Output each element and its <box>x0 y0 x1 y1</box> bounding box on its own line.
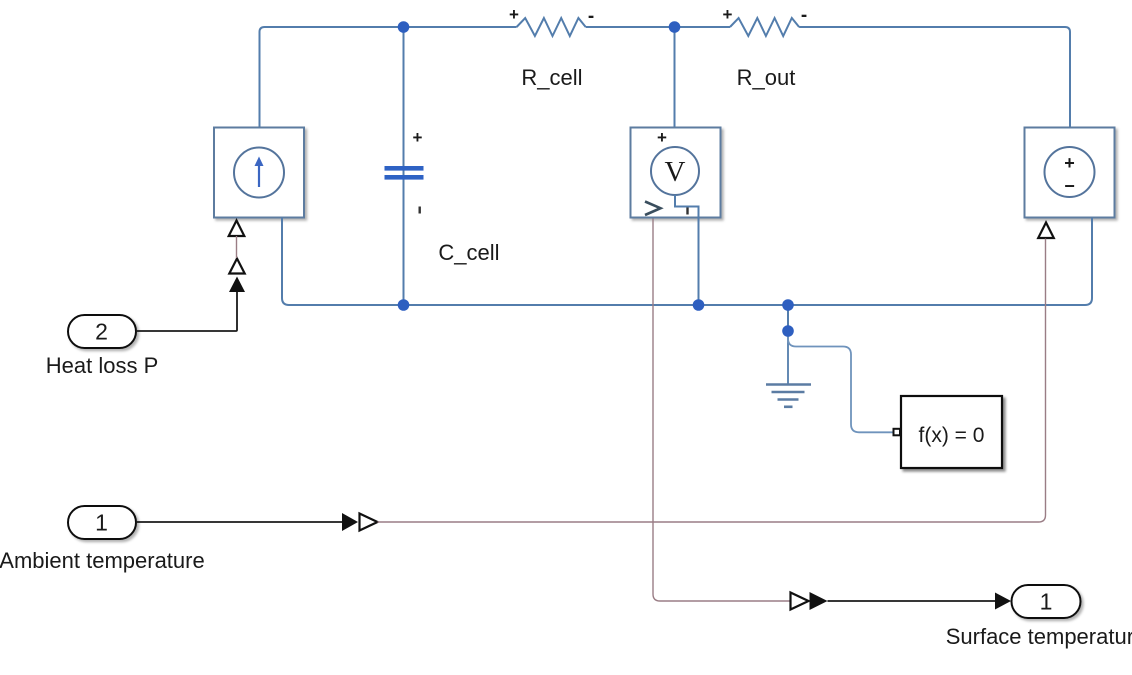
svg-text:1: 1 <box>95 510 108 536</box>
wire: voltage sensor internal bottom <box>675 195 699 305</box>
svg-text:+: + <box>723 5 733 24</box>
svg-text:+: + <box>413 128 423 147</box>
arrowhead: surface signal (filled, right) <box>810 592 828 610</box>
wire: voltage sensor top branch <box>674 27 676 147</box>
wire: sensor PS output line <box>653 219 794 602</box>
svg-text:+: + <box>509 5 519 24</box>
input port 1 <box>68 506 136 539</box>
svg-text:+: + <box>1064 153 1075 173</box>
arrowhead: ambient PS (hollow, right) <box>360 514 378 531</box>
wire: ambient PS line to voltage source <box>378 239 1046 523</box>
wire: surface temperature signal <box>828 600 997 602</box>
svg-text:Heat loss P: Heat loss P <box>46 353 159 378</box>
junction node: ground/solver split <box>782 325 794 337</box>
junction node: capacitor top <box>398 21 410 33</box>
svg-text:Surface temperature: Surface temperature <box>946 624 1132 649</box>
input port 2 <box>68 315 136 348</box>
label: voltage sensor minus terminal <box>686 208 688 215</box>
wire: bottom net <box>282 218 1092 306</box>
arrowhead: surface PS (hollow, right) <box>791 593 809 610</box>
svg-text:-: - <box>801 5 807 26</box>
resistor R_out <box>730 18 799 36</box>
voltage source PS input port triangle <box>1038 223 1054 239</box>
wire: ground vertical <box>787 331 789 384</box>
voltage sensor U2 <box>631 128 721 218</box>
svg-text:f(x) = 0: f(x) = 0 <box>919 424 985 447</box>
wire: solver branch to f(x)=0 <box>788 331 893 432</box>
wire: port 2 signal <box>136 292 237 331</box>
svg-text:C_cell: C_cell <box>438 240 499 265</box>
solver block input port square <box>894 429 901 436</box>
arrowhead: heat loss PS (hollow, up) <box>229 259 244 274</box>
wire: top net from R_out to voltage source <box>799 27 1070 148</box>
arrowhead: ambient signal (filled, right) <box>342 513 358 531</box>
arrowhead: into output port 1 (filled, right) <box>995 593 1011 610</box>
solver block f(x)=0 <box>901 396 1002 468</box>
junction node: capacitor bottom <box>398 299 410 311</box>
junction node: ground at bottom net <box>782 299 794 311</box>
svg-text:−: − <box>1064 176 1075 196</box>
wire: ground stub <box>787 305 789 331</box>
svg-text:+: + <box>657 128 667 147</box>
current source circle <box>234 148 284 198</box>
voltage sensor PS output marker <box>645 202 661 216</box>
wire: top net between R_cell and R_out <box>586 26 730 28</box>
ground G1 <box>766 385 811 407</box>
wire: top net from current source to R_cell <box>260 27 517 148</box>
wire: port 1 signal <box>136 521 342 523</box>
output port 1 <box>1012 585 1081 618</box>
svg-text:2: 2 <box>95 319 108 345</box>
capacitor C_cell <box>385 166 424 180</box>
resistor R_cell <box>517 18 586 36</box>
voltage source U3 <box>1025 128 1115 218</box>
svg-text:1: 1 <box>1040 589 1053 615</box>
svg-text:V: V <box>665 156 686 188</box>
svg-text:R_out: R_out <box>737 65 796 90</box>
voltage source circle <box>1045 147 1095 197</box>
voltage sensor circle <box>651 147 699 195</box>
junction node: sensor bottom <box>693 299 705 311</box>
arrowhead: heat loss signal (filled, up) <box>229 277 245 293</box>
label: capacitor minus terminal <box>419 207 421 214</box>
svg-text:-: - <box>588 6 594 27</box>
current source U1 <box>214 128 304 218</box>
current source arrow <box>255 157 264 188</box>
svg-text:Ambient temperature: Ambient temperature <box>0 548 205 573</box>
current source PS input port triangle <box>229 221 245 237</box>
junction node: sensor top <box>669 21 681 33</box>
svg-text:R_cell: R_cell <box>521 65 582 90</box>
wire: PS segment between triangles <box>236 236 238 258</box>
wire: capacitor top branch <box>403 27 405 305</box>
